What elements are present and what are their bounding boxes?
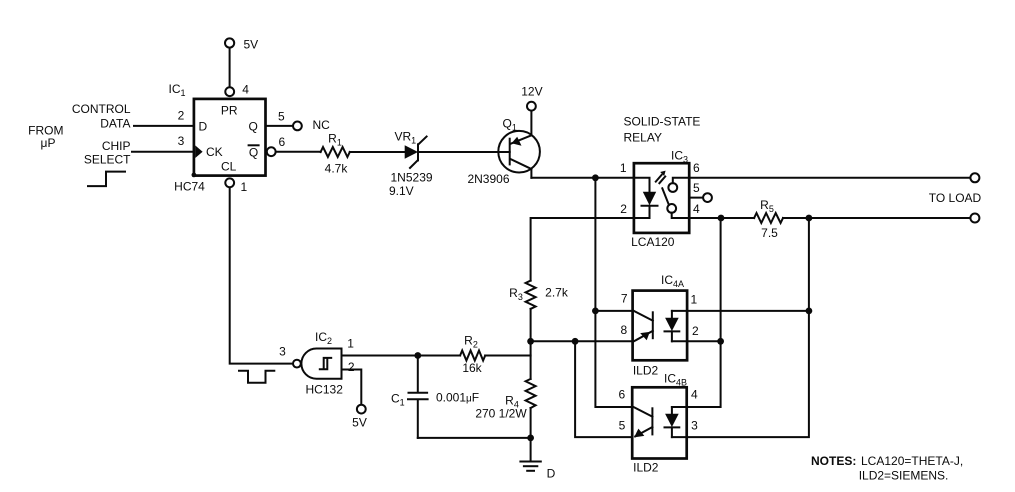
svg-text:CONTROL: CONTROL: [72, 102, 131, 116]
svg-text:CHIP: CHIP: [102, 139, 131, 153]
IC3 pin numbers: [620, 161, 700, 216]
svg-text:4: 4: [691, 388, 698, 402]
svg-text:0.001μF: 0.001μF: [436, 391, 479, 405]
label 1N5239 9.1V: [389, 170, 433, 198]
wire R1 to VR1: [350, 151, 405, 153]
svg-text:12V: 12V: [521, 84, 542, 98]
label R5 7.5: [760, 198, 778, 240]
svg-text:9.1V: 9.1V: [389, 184, 414, 198]
junction R5 left: [718, 215, 725, 222]
resistor R5 7.5: [754, 213, 783, 223]
IC4A phototransistor: [634, 311, 653, 341]
svg-text:1N5239: 1N5239: [391, 170, 433, 184]
terminal 5V top: [225, 38, 234, 47]
wire IC3 pin 6 to TO LOAD top terminal: [689, 177, 970, 179]
svg-text:TO LOAD: TO LOAD: [929, 191, 982, 205]
wire 5V to IC1 pin 4: [229, 48, 231, 87]
label CHIP SELECT: [84, 139, 131, 167]
svg-text:1: 1: [690, 293, 697, 307]
wire R5 right node down to IC4B pin 3: [687, 218, 809, 437]
svg-text:4: 4: [693, 202, 700, 216]
IC3 internal LED: [634, 178, 658, 218]
label IC4A: [661, 273, 684, 289]
optocoupler IC4A box: [633, 291, 688, 361]
capacitor C1 0.001uF: [408, 393, 428, 399]
wire IC3 pin 2 to R3 top branch: [531, 218, 634, 281]
wire R3 bottom to node row: [530, 309, 532, 379]
junction R4 bottom: [527, 435, 534, 442]
svg-text:R1: R1: [328, 132, 342, 148]
IC4B internal diode: [665, 407, 687, 437]
svg-text:μP: μP: [41, 136, 56, 150]
terminal TO LOAD bottom: [970, 214, 979, 223]
svg-text:C1: C1: [391, 392, 405, 408]
IC1 CK clock triangle: [195, 145, 202, 158]
label FROM uP: [28, 124, 63, 151]
wire IC4A pin 2: [687, 340, 721, 342]
wire IC3 pin 5 stub: [689, 197, 703, 199]
svg-text:NC: NC: [313, 118, 331, 132]
IC3 switch contacts: [662, 178, 689, 218]
label NC: [313, 118, 331, 132]
wire IC2 pin 1 through node to R2 and R3/R4 node: [342, 355, 531, 357]
svg-text:3: 3: [691, 419, 698, 433]
wire R5 to TO LOAD bottom terminal: [783, 217, 971, 219]
label 5V top: [244, 38, 259, 52]
label 5V IC2: [352, 415, 367, 429]
label IC2: [315, 330, 332, 346]
svg-text:IC4B: IC4B: [664, 372, 687, 388]
svg-text:2N3906: 2N3906: [467, 172, 509, 186]
svg-text:4.7k: 4.7k: [325, 162, 349, 176]
wire R4 bottom to ground: [530, 408, 532, 460]
junction IC4A pin 1 node: [806, 308, 813, 315]
label LCA120: [631, 235, 675, 249]
terminal NC IC1 pin 5: [293, 122, 302, 131]
zener diode VR1 1N5239: [405, 137, 427, 168]
label 2N3906: [467, 172, 509, 186]
wire IC3 pin 4 to R5: [689, 217, 754, 219]
svg-text:2: 2: [692, 324, 699, 338]
svg-text:HC74: HC74: [174, 180, 205, 194]
junction IC4A pin 2 node: [717, 338, 724, 345]
svg-text:SOLID-STATE: SOLID-STATE: [624, 115, 701, 129]
label D ground: [547, 467, 556, 481]
wire IC4A pin 1 to right vertical: [687, 310, 809, 312]
IC4A pin numbers: [620, 292, 699, 339]
junction collector node: [592, 174, 599, 181]
IC4B pin numbers: [618, 388, 698, 433]
terminal TO LOAD top: [970, 173, 979, 182]
svg-text:4: 4: [242, 82, 249, 96]
wire collector node down to IC4A pin 7 and IC4B pin 6: [595, 178, 632, 407]
resistor R4 270: [526, 379, 536, 408]
step waveform symbol chip select: [88, 172, 125, 187]
svg-text:2: 2: [620, 202, 627, 216]
wire IC2 pin 2 to 5V terminal: [342, 370, 362, 405]
label HC74: [174, 180, 205, 194]
svg-text:5V: 5V: [244, 38, 259, 52]
svg-text:CL: CL: [221, 159, 237, 173]
svg-text:3: 3: [279, 345, 286, 359]
wire Q1 collector to IC3 pin 1: [531, 169, 634, 178]
svg-text:IC4A: IC4A: [661, 273, 684, 289]
svg-text:NOTES:: NOTES:: [811, 454, 856, 468]
IC1 pin 1 circle: [225, 178, 234, 187]
wire CONTROL DATA to D input: [134, 125, 194, 127]
svg-text:R3: R3: [509, 286, 523, 302]
label IC1: [169, 82, 186, 98]
wire IC1 pin 1 down to IC2 output bubble: [230, 187, 293, 363]
svg-text:D: D: [547, 467, 556, 481]
label R3 2.7k: [509, 285, 569, 302]
label VR1: [395, 129, 417, 145]
svg-text:270 1/2W: 270 1/2W: [475, 407, 527, 421]
IC1 internal labels: [198, 103, 258, 173]
flip-flop IC1 HC74 box: [194, 99, 266, 176]
svg-text:LCA120=THETA-J,: LCA120=THETA-J,: [861, 454, 963, 468]
svg-text:2: 2: [178, 109, 185, 123]
svg-text:5V: 5V: [352, 415, 367, 429]
label CONTROL DATA: [72, 102, 131, 131]
svg-text:Q: Q: [249, 145, 258, 159]
svg-text:1: 1: [347, 336, 354, 350]
svg-text:5: 5: [693, 181, 700, 195]
svg-text:HC132: HC132: [306, 383, 344, 397]
svg-text:ILD2=SIEMENS.: ILD2=SIEMENS.: [859, 469, 949, 483]
ground D: [520, 462, 540, 471]
svg-text:1: 1: [620, 161, 627, 175]
junction C1 top node: [414, 352, 421, 359]
resistor R2 16k: [460, 351, 485, 361]
svg-text:IC1: IC1: [169, 82, 186, 98]
IC1 pin 6 circle: [267, 147, 276, 156]
negative pulse waveform symbol: [239, 371, 274, 383]
junction node row left: [527, 338, 534, 345]
svg-text:7.5: 7.5: [761, 226, 778, 240]
svg-text:Q1: Q1: [503, 116, 517, 132]
svg-text:8: 8: [620, 323, 627, 337]
svg-text:IC2: IC2: [315, 330, 332, 346]
IC1 pin 4 circle: [225, 87, 234, 96]
IC4A internal diode: [665, 311, 688, 341]
label R4 270 1/2W: [475, 393, 527, 420]
wire C1 branch vertical: [417, 356, 419, 438]
wire IC4A pin 7 stub: [595, 310, 632, 312]
wire C1 bottom to R4 bottom: [418, 437, 531, 439]
svg-text:1: 1: [240, 180, 247, 194]
label HC132: [306, 383, 344, 397]
svg-text:VR1: VR1: [395, 129, 417, 145]
svg-text:6: 6: [693, 161, 700, 175]
IC3 light coupling arrow: [656, 171, 666, 184]
label 12V: [521, 84, 542, 98]
svg-text:16k: 16k: [462, 361, 482, 375]
svg-text:3: 3: [178, 134, 185, 148]
svg-text:SELECT: SELECT: [84, 153, 131, 167]
optocoupler IC4B box: [632, 387, 687, 458]
label ILD2 upper: [633, 364, 659, 378]
junction node row mid: [572, 338, 579, 345]
label TO LOAD: [929, 191, 982, 205]
resistor R3 2.7k: [526, 281, 536, 309]
svg-text:RELAY: RELAY: [624, 131, 662, 145]
svg-text:IC3: IC3: [671, 148, 688, 164]
terminal 12V: [527, 102, 536, 111]
wire 12V to Q1 emitter: [530, 110, 532, 135]
transistor Q1 2N3906: [498, 131, 540, 173]
svg-text:PR: PR: [221, 103, 238, 117]
IC2 pin numbers: [279, 336, 355, 373]
relay IC3 LCA120 box: [634, 163, 689, 233]
wire Qbar pin 6 to R1: [276, 151, 321, 153]
svg-text:6: 6: [618, 388, 625, 402]
svg-text:R5: R5: [760, 198, 774, 214]
svg-text:5: 5: [619, 419, 626, 433]
label 0.001uF: [436, 391, 479, 405]
svg-text:ILD2: ILD2: [633, 364, 659, 378]
wire VR1 to Q1 base: [418, 151, 510, 153]
wire node down to IC4B pin 5: [575, 341, 632, 437]
svg-text:Q: Q: [249, 119, 258, 133]
svg-text:CK: CK: [206, 145, 223, 159]
label ILD2 lower: [633, 461, 659, 475]
resistor R1 4.7k: [321, 147, 350, 157]
wire Q pin 5 to NC terminal: [266, 125, 294, 127]
junction IC4A pin 7 node: [592, 308, 599, 315]
label SOLID-STATE RELAY: [624, 115, 701, 145]
svg-text:7: 7: [621, 292, 628, 306]
svg-text:LCA120: LCA120: [631, 235, 675, 249]
label R2 16k: [462, 334, 482, 375]
svg-text:DATA: DATA: [100, 117, 130, 131]
terminal 5V IC2 pin 2: [357, 405, 366, 414]
label R1 4.7k: [325, 132, 349, 176]
IC1 pin numbers: [178, 82, 286, 194]
IC1 corner junction dot: [192, 173, 197, 178]
IC4B phototransistor: [634, 407, 653, 437]
svg-text:6: 6: [278, 135, 285, 149]
label NOTES: [811, 454, 963, 483]
terminal NC IC3 pin 5: [703, 193, 712, 202]
svg-text:2: 2: [348, 360, 355, 374]
nand gate IC2 HC132 body: [293, 349, 342, 379]
wire node row to IC4A pin 8: [531, 340, 633, 342]
junction R5 right: [806, 215, 813, 222]
label IC4B: [664, 372, 687, 388]
wire R5 left node down to IC4A pin 2 and IC4B pin 4: [687, 218, 721, 407]
label C1: [391, 392, 405, 408]
svg-text:5: 5: [278, 109, 285, 123]
svg-text:R2: R2: [464, 334, 478, 350]
wire CHIP SELECT to CK input: [132, 151, 194, 153]
label IC3: [671, 148, 688, 164]
svg-text:2.7k: 2.7k: [545, 285, 569, 299]
svg-text:ILD2: ILD2: [633, 461, 659, 475]
label Q1: [503, 116, 517, 132]
svg-text:D: D: [198, 119, 207, 133]
